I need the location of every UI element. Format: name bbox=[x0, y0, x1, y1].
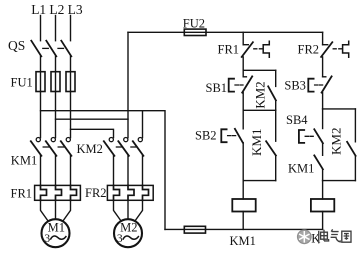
wire right box top rung bbox=[323, 108, 356, 110]
svg-text:FU2: FU2 bbox=[183, 16, 205, 30]
relay FR1 heater label bbox=[11, 186, 33, 200]
contactor KM1 pole3 bbox=[66, 138, 70, 142]
relay FR2 NC contact label bbox=[298, 43, 320, 57]
switch QS pole 2 blade bbox=[46, 41, 56, 57]
node L2 label bbox=[49, 2, 64, 17]
pushbutton SB4 NO contact bbox=[322, 109, 324, 129]
switch QS pole 3 blade bbox=[61, 41, 71, 57]
wire FU1 to KM1 phase3 bbox=[70, 92, 72, 138]
relay FR1 heater element phase1 bbox=[41, 185, 47, 200]
wire L2 drop to QS bbox=[55, 16, 57, 41]
svg-text:FR1: FR1 bbox=[11, 186, 33, 200]
contactor KM2 pole1 bbox=[109, 138, 113, 142]
node L1 label bbox=[31, 2, 46, 17]
svg-text:SB2: SB2 bbox=[195, 129, 217, 143]
contact KM2 aux (right) rotated label bbox=[328, 128, 343, 155]
svg-text:KM1: KM1 bbox=[288, 161, 314, 175]
contact KM2 aux NO bbox=[275, 70, 277, 86]
watermark bbox=[298, 229, 352, 245]
relay FR1 heater element phase2 bbox=[56, 185, 62, 200]
wire FR2 to SB3 bbox=[322, 57, 324, 77]
pushbutton SB4 label bbox=[286, 113, 308, 127]
wire FR2 to motor M2 bbox=[114, 200, 122, 221]
svg-text:KM1: KM1 bbox=[11, 153, 37, 167]
svg-text:L3: L3 bbox=[68, 2, 83, 17]
wire FR1 to box1 bbox=[242, 57, 244, 70]
svg-text:FR1: FR1 bbox=[218, 43, 240, 57]
svg-text:M2: M2 bbox=[120, 221, 137, 235]
wire FR1 to motor M1 bbox=[41, 200, 49, 221]
contactor KM1 main contacts label bbox=[11, 153, 37, 167]
pushbutton SB4 actuator bbox=[299, 130, 304, 143]
fuse FU1 label bbox=[11, 75, 33, 89]
coil KM1 bbox=[232, 199, 255, 212]
wire QS to FU1 phase2 bbox=[55, 56, 57, 71]
relay FR2 NC contact bbox=[322, 32, 324, 44]
svg-text:KM2: KM2 bbox=[328, 128, 343, 155]
svg-text:SB1: SB1 bbox=[206, 81, 228, 95]
motor M1 bbox=[42, 219, 70, 247]
contactor KM2 pole3 bbox=[138, 138, 142, 142]
fuse FU1 phase3 bbox=[70, 72, 72, 92]
wire box1 top rung bbox=[243, 69, 276, 71]
svg-text:FU1: FU1 bbox=[11, 75, 33, 89]
wire feed line3 phase3 to KM2 pole1 bbox=[71, 129, 114, 137]
contact KM2 aux (right) NO bbox=[354, 109, 356, 142]
wire control feed vertical bbox=[127, 32, 129, 137]
fuse FU2 top bbox=[184, 29, 206, 35]
relay FR2 heater element phase1 bbox=[114, 185, 120, 200]
switch QS pole 1 blade bbox=[31, 41, 41, 57]
pushbutton SB2 label bbox=[195, 129, 217, 143]
fuse FU2 bottom bbox=[184, 226, 205, 233]
relay FR1 heater element phase3 bbox=[71, 185, 77, 200]
relay FR2 heater box bbox=[107, 185, 153, 200]
relay FR1 NC contact label bbox=[218, 43, 240, 57]
wire KM2 pole3 drop bbox=[142, 111, 144, 138]
relay FR2 heater label bbox=[85, 186, 107, 200]
wire box1 bottom rung bbox=[243, 109, 276, 111]
relay FR2 heater element phase3 bbox=[143, 185, 149, 200]
contactor KM2 linkage dashes bbox=[116, 146, 122, 148]
svg-text:3: 3 bbox=[117, 233, 123, 245]
coil KM2 bbox=[311, 199, 334, 212]
svg-text:FR2: FR2 bbox=[85, 186, 107, 200]
wire box2 bottom rung bbox=[243, 180, 276, 182]
contactor KM2 main contacts label bbox=[77, 142, 103, 156]
contactor KM2 pole2 bbox=[124, 138, 128, 142]
svg-text:L2: L2 bbox=[49, 2, 64, 17]
wire L1 drop to QS bbox=[40, 16, 42, 41]
wire control top rail bbox=[128, 31, 323, 33]
motor M2 bbox=[114, 219, 142, 247]
fuse FU2 label bbox=[183, 16, 205, 30]
pushbutton SB1 actuator bbox=[229, 79, 234, 92]
wire right box bottom rung bbox=[323, 180, 356, 182]
contact KM1 series NO bbox=[314, 155, 323, 169]
wire FU1 to KM1 phase1 bbox=[40, 92, 42, 138]
switch QS linkage dashes bbox=[43, 47, 49, 49]
svg-text:SB4: SB4 bbox=[286, 113, 308, 127]
wire L3 drop to QS bbox=[70, 16, 72, 41]
wire box2 to coil KM1 bbox=[242, 181, 244, 199]
wire FU1 to KM1 phase2 bbox=[55, 92, 57, 138]
wire coil KM2 to bottom rail bbox=[322, 212, 324, 230]
relay FR1 heater box bbox=[35, 185, 81, 200]
contactor KM1 pole2 bbox=[51, 138, 55, 142]
svg-text:SB3: SB3 bbox=[284, 79, 306, 93]
relay FR1 NC contact bbox=[242, 32, 244, 44]
svg-text:KM2: KM2 bbox=[77, 142, 103, 156]
svg-text:KM2: KM2 bbox=[252, 81, 267, 108]
pushbutton SB2 actuator bbox=[221, 129, 226, 142]
fuse FU1 phase1 bbox=[40, 72, 42, 92]
svg-text:L1: L1 bbox=[31, 2, 46, 17]
pushbutton SB1 NC contact bbox=[242, 70, 244, 77]
svg-text:M1: M1 bbox=[48, 221, 65, 235]
svg-text:3: 3 bbox=[44, 233, 50, 245]
pushbutton SB3 actuator bbox=[308, 79, 313, 92]
contact KM1 series label bbox=[288, 161, 314, 175]
pushbutton SB1 label bbox=[206, 81, 228, 95]
pushbutton SB3 label bbox=[284, 79, 306, 93]
contactor KM1 linkage dashes bbox=[43, 146, 49, 148]
wire feed line1 phase1 to KM2 and control bbox=[41, 111, 166, 230]
pushbutton SB2 NO contact bbox=[242, 110, 244, 129]
node L3 label bbox=[68, 2, 83, 17]
pushbutton SB3 NC contact bbox=[323, 76, 326, 78]
relay FR2 heater element phase2 bbox=[128, 185, 134, 200]
wire coil KM1 to bottom rail bbox=[242, 212, 244, 230]
fuse FU1 phase2 bbox=[55, 72, 57, 92]
svg-text:KM1: KM1 bbox=[230, 234, 256, 248]
wire right box to coil KM2 bbox=[322, 181, 324, 199]
svg-text:KM1: KM1 bbox=[249, 129, 264, 156]
wire QS to FU1 phase3 bbox=[70, 56, 72, 71]
contact KM1 aux NO bbox=[275, 110, 277, 141]
svg-text:QS: QS bbox=[8, 38, 25, 53]
svg-text:FR2: FR2 bbox=[298, 43, 320, 57]
switch QS label bbox=[8, 38, 25, 53]
contactor KM1 pole1 bbox=[36, 138, 40, 142]
contact KM2 aux (parallel SB1) rotated label bbox=[252, 81, 267, 108]
wire control bottom rail bbox=[165, 228, 323, 230]
contact KM1 aux (parallel SB2) rotated label bbox=[249, 129, 264, 156]
wire feed line2 phase2 to KM2 pole2 bbox=[56, 118, 129, 120]
wire QS to FU1 phase1 bbox=[40, 56, 42, 71]
